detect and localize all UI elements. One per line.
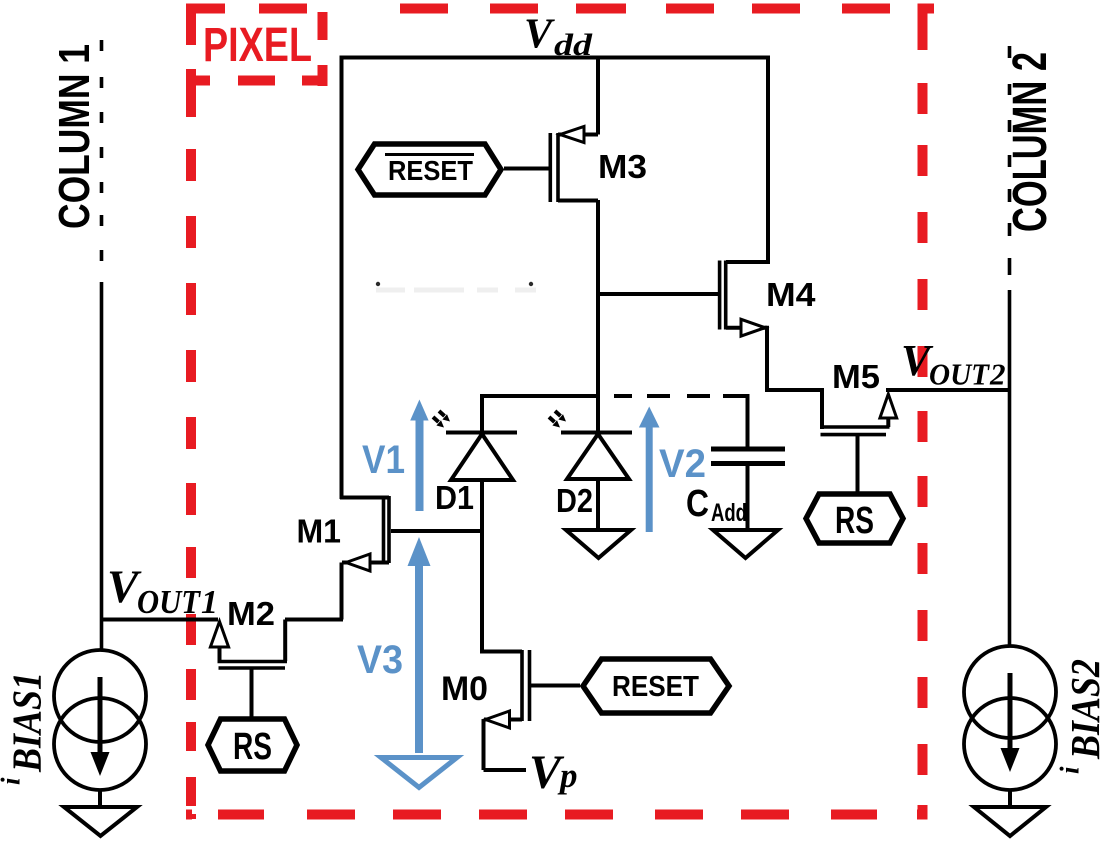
column 2 solid wire — [1008, 290, 1012, 646]
svg-text:V2: V2 — [659, 442, 706, 486]
wire Vdd to M3 drain — [596, 57, 600, 135]
VOUT2 wire — [886, 388, 1010, 392]
pixel boundary red dashed box bottom edge — [186, 810, 928, 820]
M2 label — [227, 595, 275, 632]
wire Vdd left branch down to M1 — [340, 56, 344, 500]
svg-text:RS: RS — [835, 500, 874, 542]
current source iBIAS1 — [54, 650, 146, 790]
iBIAS1 arrow — [91, 677, 110, 776]
column 1 solid wire — [100, 282, 104, 649]
pixel boundary red dashed box top edge — [186, 4, 934, 14]
node wire D1 to D2 top — [480, 394, 600, 398]
column 1 dashed bus line — [100, 40, 104, 261]
hexagon flag RESETbar — [358, 144, 501, 195]
photodiode D1 — [446, 396, 517, 533]
D1 light arrows — [433, 411, 450, 428]
column 2 dashed bus line — [1008, 46, 1012, 275]
wire iBIAS2 to ground — [1008, 791, 1012, 806]
CAdd label — [686, 483, 747, 527]
COLUMN 1 label — [50, 44, 99, 229]
svg-text:M2: M2 — [227, 595, 275, 632]
wire M3 drain down to D2 node — [596, 200, 600, 434]
wire M2 gate to RS flag — [250, 667, 254, 717]
svg-text:C: C — [686, 483, 709, 525]
svg-text:RESET: RESET — [388, 155, 473, 186]
svg-text:Add: Add — [711, 499, 747, 527]
PIXEL label sub-box bottom edge — [186, 76, 326, 86]
photodiode D2 — [561, 433, 632, 530]
M1 label — [297, 513, 342, 550]
V3 label — [357, 638, 403, 682]
svg-text:BIAS1: BIAS1 — [4, 672, 50, 773]
hexagon flag RS left — [208, 719, 297, 771]
D1 label — [435, 479, 474, 516]
hexagon flag RS right — [806, 494, 903, 543]
svg-text:M0: M0 — [441, 670, 488, 708]
D2 label — [556, 482, 593, 519]
svg-text:i: i — [1055, 766, 1085, 774]
svg-text:V3: V3 — [357, 638, 403, 682]
ground under D2 — [566, 530, 631, 558]
Vp label — [529, 746, 578, 799]
svg-text:OUT: OUT — [929, 357, 990, 392]
VOUT1 label — [107, 561, 218, 621]
M0 label — [441, 670, 488, 708]
svg-text:D1: D1 — [435, 479, 474, 516]
D2 light arrows — [549, 411, 566, 428]
transistor M2 — [210, 620, 287, 669]
svg-text:V1: V1 — [362, 438, 405, 482]
iBIAS2 label — [1055, 659, 1103, 774]
svg-text:D2: D2 — [556, 482, 593, 519]
svg-text:M5: M5 — [832, 358, 880, 395]
VOUT2 label — [901, 336, 1006, 392]
svg-text:COLUMN 2: COLUMN 2 — [1004, 52, 1057, 232]
wire M1 source down to M2 drain — [285, 563, 343, 620]
blue arrow V2 — [639, 407, 660, 533]
svg-text:dd: dd — [554, 27, 593, 62]
svg-text:BIAS2: BIAS2 — [1062, 659, 1103, 760]
dashed node wire D2 to CAdd — [614, 394, 748, 398]
capacitor CAdd — [711, 394, 785, 529]
Vdd label — [524, 12, 593, 63]
svg-text:1: 1 — [201, 584, 218, 621]
VOUT1 wire — [101, 618, 218, 622]
ground under iBIAS2 — [974, 807, 1046, 836]
wire RESETbar to M3 gate — [504, 167, 549, 171]
wire M4 source down to M5 drain — [767, 326, 822, 429]
M3 label — [598, 148, 647, 185]
blue arrow V3 — [408, 537, 431, 753]
svg-text:M3: M3 — [598, 148, 647, 185]
wire M4 gate to M3 drain node — [598, 292, 719, 296]
COLUMN 2 label — [1004, 52, 1057, 232]
Vdd rail wire — [342, 56, 769, 60]
V1 label — [362, 438, 405, 482]
wire D1 anode down to M0 drain — [480, 531, 522, 654]
svg-text:PIXEL: PIXEL — [203, 19, 312, 72]
pixel boundary red dashed box right edge — [918, 4, 928, 820]
transistor M5 — [821, 394, 897, 435]
svg-text:p: p — [557, 756, 578, 795]
blue ground under V3 — [381, 758, 457, 788]
current source iBIAS2 — [964, 646, 1056, 790]
svg-text:M4: M4 — [766, 276, 816, 313]
transistor M1 — [340, 496, 389, 571]
iBIAS1 label — [0, 672, 50, 785]
transistor M4 — [720, 261, 767, 337]
hexagon flag RESET — [583, 659, 729, 713]
svg-text:i: i — [0, 777, 26, 785]
M5 label — [832, 358, 880, 395]
wire M5 gate to RS flag — [856, 434, 860, 492]
blue arrow V1 — [410, 400, 428, 512]
pixel boundary red dashed box left edge — [186, 4, 196, 820]
svg-text:COLUMN 1: COLUMN 1 — [50, 44, 99, 229]
faint artifact dots — [376, 282, 536, 290]
svg-text:2: 2 — [989, 357, 1006, 392]
wire M1 gate to photodiode node — [391, 529, 483, 533]
transistor M3 — [550, 127, 598, 203]
V2 label — [659, 442, 706, 486]
iBIAS2 arrow — [1001, 673, 1020, 772]
ground under CAdd — [713, 530, 778, 558]
svg-text:V: V — [524, 12, 555, 58]
wire iBIAS1 to ground — [98, 791, 102, 806]
transistor M0 — [484, 650, 530, 728]
ground under iBIAS1 — [64, 807, 137, 836]
wire M0 gate to RESET flag — [530, 684, 581, 688]
svg-text:M1: M1 — [297, 513, 342, 550]
wire Vdd to M4 drain — [726, 56, 768, 263]
svg-text:RESET: RESET — [612, 671, 699, 703]
PIXEL label sub-box right edge — [318, 12, 328, 86]
svg-text:OUT: OUT — [137, 584, 201, 621]
M4 label — [766, 276, 816, 313]
wire M0 source to Vp — [484, 720, 527, 771]
PIXEL text — [203, 19, 312, 72]
svg-text:RS: RS — [233, 726, 272, 768]
